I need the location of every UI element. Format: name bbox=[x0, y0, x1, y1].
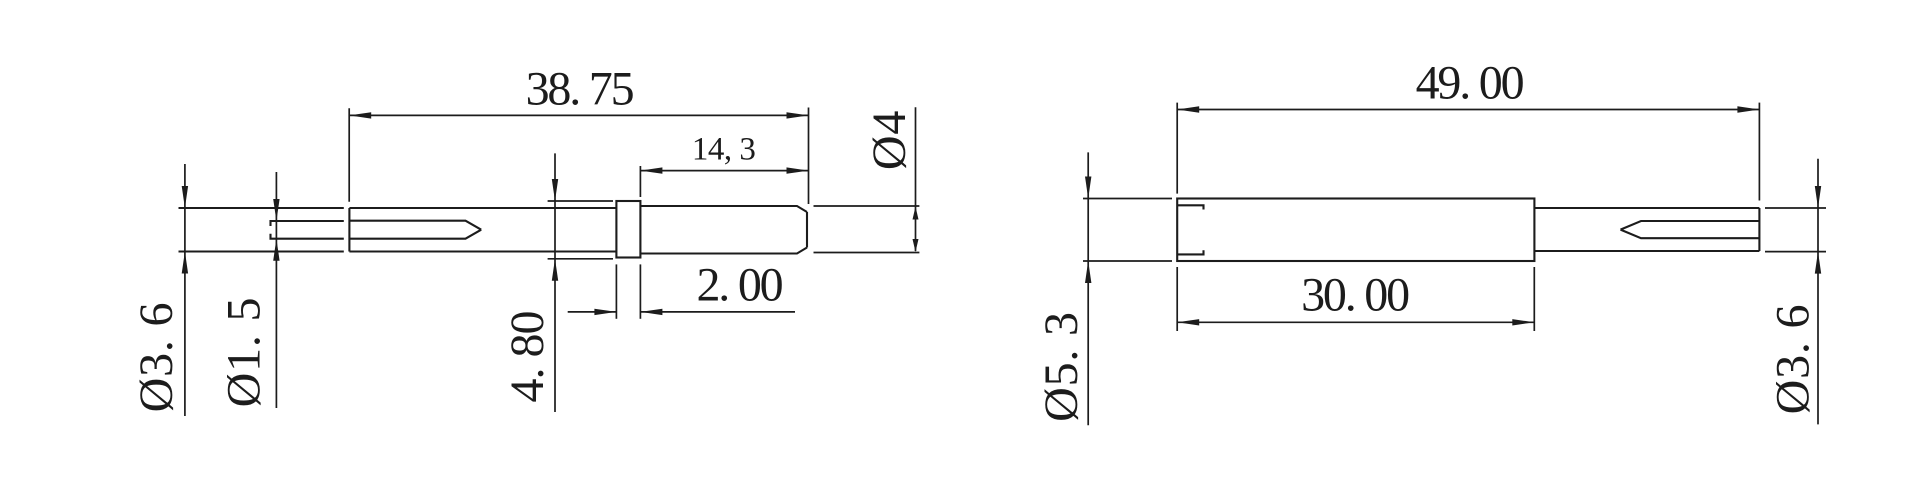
dim 38.75: right extension line bbox=[808, 108, 810, 205]
svg-text:49. 00: 49. 00 bbox=[1416, 57, 1524, 110]
right part: slot top line with chevron bbox=[1621, 221, 1760, 230]
dim 14,3: left extension line bbox=[639, 166, 641, 197]
dim 14,3: dimension line bbox=[640, 170, 808, 172]
arrow 38.75 right bbox=[787, 112, 809, 118]
right part: shaft bottom edge bbox=[1534, 250, 1759, 252]
left part: right end wall bbox=[806, 212, 808, 248]
arrow Ø1.5 top (down) bbox=[273, 199, 279, 221]
right part: shaft top edge bbox=[1534, 207, 1759, 209]
arrow 30.00 left bbox=[1177, 319, 1199, 325]
svg-text:38. 75: 38. 75 bbox=[526, 63, 634, 116]
dim 2.00: left extension line bbox=[615, 264, 617, 318]
left part: slot bottom line with chevron bbox=[349, 230, 481, 239]
dim 49.00: right extension line bbox=[1758, 103, 1760, 201]
right part: bore notch top line bbox=[1177, 205, 1203, 209]
arrow Ø5.3 top (down) bbox=[1085, 177, 1091, 199]
dim 49.00: dimension line bbox=[1177, 109, 1759, 111]
dim 2.00: right dimension segment bbox=[640, 311, 795, 313]
svg-text:14, 3: 14, 3 bbox=[692, 132, 756, 168]
dim 49.00: left extension line bbox=[1176, 103, 1178, 194]
dim Ø4: top extension line bbox=[814, 205, 920, 207]
arrow 4.80 top (down) bbox=[552, 179, 558, 201]
left part: pin body left edge bbox=[348, 208, 350, 252]
svg-text:Ø3. 6: Ø3. 6 bbox=[1767, 304, 1820, 415]
right part: shaft end wall bbox=[1758, 208, 1760, 251]
arrow 49.00 right bbox=[1737, 106, 1759, 112]
svg-text:Ø5. 3: Ø5. 3 bbox=[1035, 311, 1088, 422]
arrow Ø3.6 left top (down) bbox=[182, 186, 188, 208]
left part: slot top line with chevron bbox=[349, 221, 481, 230]
dim 30.00: dimension line bbox=[1177, 321, 1534, 323]
left part: right section top edge with chamfer bbox=[640, 206, 807, 212]
dim 4.80: bottom extension line bbox=[548, 258, 613, 260]
arrow Ø5.3 bottom (up) bbox=[1085, 261, 1091, 283]
dim Ø3.6 left: dimension line bbox=[184, 164, 186, 416]
dim 2.00: right extension line bbox=[639, 264, 641, 318]
arrow 14,3 left bbox=[640, 167, 662, 173]
left part: right section bottom edge with chamfer bbox=[640, 248, 807, 254]
dim 38.75: left extension line bbox=[348, 108, 350, 202]
left part: pin body bottom edge bbox=[349, 250, 616, 252]
dim Ø3.6 right: dimension line bbox=[1817, 159, 1819, 425]
arrow 49.00 left bbox=[1177, 106, 1199, 112]
arrow Ø3.6 right top (down) bbox=[1815, 186, 1821, 208]
arrow Ø4 bottom (down, inside) bbox=[913, 239, 919, 252]
arrow 14,3 right bbox=[787, 167, 809, 173]
svg-text:Ø1. 5: Ø1. 5 bbox=[218, 297, 271, 408]
svg-text:4. 80: 4. 80 bbox=[501, 312, 554, 403]
left part: tube outer top edge bbox=[179, 207, 344, 209]
right part: slot bottom line with chevron bbox=[1621, 230, 1760, 239]
dim Ø3.6 right: top extension line bbox=[1765, 207, 1826, 209]
arrow Ø3.6 left bottom (up) bbox=[182, 252, 188, 274]
dim Ø5.3: top extension line bbox=[1083, 198, 1172, 200]
arrow 2.00 right (left-pointing) bbox=[640, 309, 662, 315]
dim 30.00: left extension line bbox=[1176, 267, 1178, 331]
arrow 4.80 bottom (up) bbox=[552, 259, 558, 281]
arrow Ø1.5 bottom (up) bbox=[273, 239, 279, 261]
svg-text:30. 00: 30. 00 bbox=[1301, 269, 1409, 322]
svg-text:2. 00: 2. 00 bbox=[696, 259, 782, 312]
svg-text:Ø3. 6: Ø3. 6 bbox=[130, 302, 183, 413]
right part: bore notch bottom line bbox=[1177, 250, 1203, 254]
dim Ø1.5 left: dimension line bbox=[275, 172, 277, 408]
dim 4.80: top extension line bbox=[548, 200, 613, 202]
dim 4.80: dimension line bbox=[554, 153, 556, 412]
dim 38.75: dimension line bbox=[349, 114, 808, 116]
arrow Ø3.6 right bottom (up) bbox=[1815, 252, 1821, 274]
arrow 2.00 left (right-pointing) bbox=[594, 309, 616, 315]
dim Ø5.3: bottom extension line bbox=[1083, 260, 1172, 262]
dim Ø5.3: dimension line bbox=[1087, 152, 1089, 425]
dim Ø3.6 right: bottom extension line bbox=[1765, 251, 1826, 253]
arrow Ø4 top (up, inside) bbox=[913, 207, 919, 220]
left part: collar rectangle bbox=[616, 201, 640, 258]
dim Ø4: bottom extension line bbox=[814, 252, 920, 254]
arrow 30.00 right bbox=[1512, 319, 1534, 325]
dim 2.00: left dimension segment bbox=[568, 311, 617, 313]
left part: tube inner bore top line bbox=[271, 221, 344, 226]
arrow 38.75 left bbox=[349, 112, 371, 118]
left part: pin body top edge bbox=[349, 207, 616, 209]
dim Ø4: dimension line bbox=[915, 107, 917, 251]
left part: tube outer bottom edge bbox=[179, 250, 344, 252]
left part: tube inner bore bottom line bbox=[271, 234, 344, 239]
right part: body rectangle bbox=[1177, 199, 1534, 262]
dim 30.00: right extension line bbox=[1533, 267, 1535, 331]
svg-text:Ø4: Ø4 bbox=[863, 110, 916, 170]
